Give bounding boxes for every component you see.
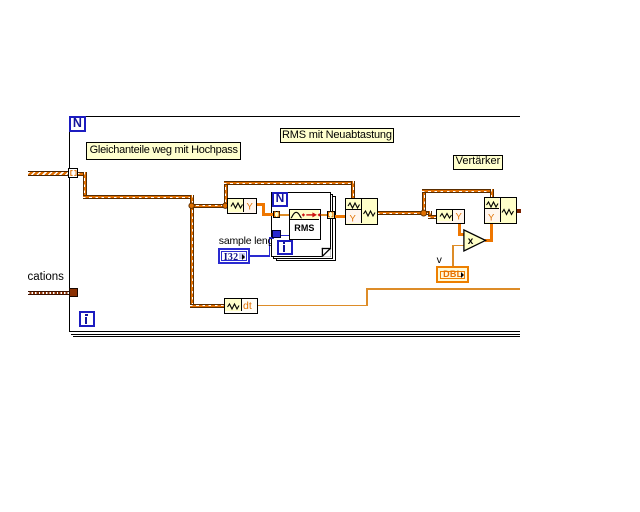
wire: waveform jog down	[428, 211, 432, 219]
RMS VI icon	[289, 209, 321, 240]
wire: waveform bypass over node3	[422, 189, 494, 193]
for-loop bottom border line 3	[73, 336, 520, 337]
wire: DBL up to multiply	[452, 245, 454, 267]
wire: dt wire riser	[366, 288, 368, 306]
wire: orange into inner-loop left tunnel	[262, 213, 274, 216]
inner left tunnel bracket glyph	[275, 212, 279, 216]
inner structure page 2	[273, 194, 333, 259]
inner loop N terminal	[272, 192, 288, 207]
text: v	[437, 254, 442, 266]
inner loop right tunnel	[327, 211, 335, 219]
i terminal of outer loop	[79, 311, 96, 327]
wire: blue I32 to riser	[250, 255, 271, 256]
wire: waveform short drop at x=192	[190, 195, 194, 207]
node dt	[224, 298, 258, 313]
wire: blue into tunnel	[269, 237, 274, 238]
inner right tunnel bracket glyph	[329, 212, 333, 216]
wire: DBL wire right to multiply input	[452, 245, 465, 247]
for-loop bottom border line 2	[71, 334, 520, 335]
wire: node1 output drop	[262, 203, 265, 216]
wire: into multiply top input	[458, 233, 465, 236]
junction J2	[223, 203, 228, 208]
label: RMS mit Neuabtastung	[280, 128, 394, 143]
svg-text:Y: Y	[350, 214, 357, 225]
wire: waveform horizontal into dt	[190, 304, 225, 308]
label: Vertärker	[453, 155, 502, 169]
RMS icon bell curve	[291, 212, 302, 218]
wire: blue inside loop to RMS	[281, 235, 290, 237]
wire: waveform riser J2 up	[224, 181, 228, 207]
wire: waveform down from tunnel	[83, 172, 87, 200]
wire: right tunnel to node2 input	[334, 215, 346, 218]
wire: tunnel to RMS icon	[280, 214, 290, 216]
label: Gleichanteile weg mit Hochpass	[86, 142, 241, 159]
blue tunnel (sample length in)	[272, 230, 281, 237]
svg-text:x: x	[468, 236, 474, 247]
wire: dt wire to right edge (clipped)	[366, 288, 520, 290]
I32 constant	[218, 248, 250, 264]
wire: waveform top bypass over node1	[224, 181, 356, 185]
zigzag glyph node2 top-left	[348, 203, 360, 208]
wire: waveform from tunnel right	[77, 172, 87, 176]
inner loop left tunnel	[273, 211, 281, 219]
N terminal of outer loop	[69, 116, 85, 132]
wire: waveform riser at J3	[422, 189, 426, 215]
for-loop bottom border line 1	[69, 331, 520, 332]
node3: filter (zigzag | Y)	[436, 209, 465, 224]
wire: node1 output orange	[257, 203, 265, 206]
tunnel maroon (error cluster)	[69, 288, 78, 297]
text: sample length	[219, 235, 273, 247]
zigzag glyph node2 right	[364, 211, 376, 216]
svg-text:Y: Y	[488, 213, 495, 224]
svg-text:Y: Y	[247, 202, 254, 213]
wire: dt output thin orange	[258, 305, 368, 307]
junction J3	[421, 210, 427, 216]
text: cations (clipped label)	[28, 271, 64, 283]
multiply triangle	[464, 230, 486, 251]
inner structure front frame	[271, 192, 330, 256]
wire: RMS icon to right tunnel	[320, 214, 327, 216]
wire: waveform into node3 input	[428, 215, 437, 219]
zigzag glyph node4 right	[502, 210, 514, 215]
svg-text:Y: Y	[456, 212, 463, 223]
junction J1	[189, 203, 194, 208]
node2: resample (2x2)	[345, 198, 377, 225]
wire: error-cluster wire (dotted maroon) outside loop	[28, 291, 70, 296]
tunnel [] on outer loop (array in)	[68, 168, 78, 178]
wire: waveform drop into node4 top	[490, 189, 494, 198]
zigzag glyph node3	[440, 214, 452, 219]
node4: resample (2x2)	[484, 197, 518, 225]
wire: waveform drop into node2 top	[351, 181, 355, 198]
zigzag glyph node1	[231, 203, 243, 208]
zigzag glyph dt	[228, 304, 240, 309]
inner loop i terminal	[277, 240, 294, 255]
for-loop top border	[69, 116, 520, 117]
wire: waveform node2 output to J3	[377, 211, 431, 215]
outer tunnel bracket glyph	[71, 171, 76, 176]
wire: waveform horizontal to x=192	[83, 195, 194, 199]
zigzag glyph node4 top-left	[487, 202, 499, 207]
wire: node3 output down	[458, 223, 461, 236]
wire: blue riser	[269, 237, 270, 256]
wire: array input wire (hatched) outside loop	[28, 171, 69, 177]
wire: waveform J1 to node1 input	[190, 204, 228, 208]
wire: node4 output stub (clipped)	[517, 209, 521, 213]
inner structure page 3	[276, 196, 337, 261]
for-loop left border	[69, 116, 70, 332]
node1: filter (zigzag | Y)	[227, 198, 257, 214]
wire: waveform down from J1 to dt	[190, 204, 194, 308]
DBL constant	[436, 266, 469, 283]
RMS icon red dots and arrow	[302, 213, 305, 216]
wire: multiply output right	[485, 239, 493, 242]
wire: multiply output up into node4 bottom	[490, 224, 493, 242]
